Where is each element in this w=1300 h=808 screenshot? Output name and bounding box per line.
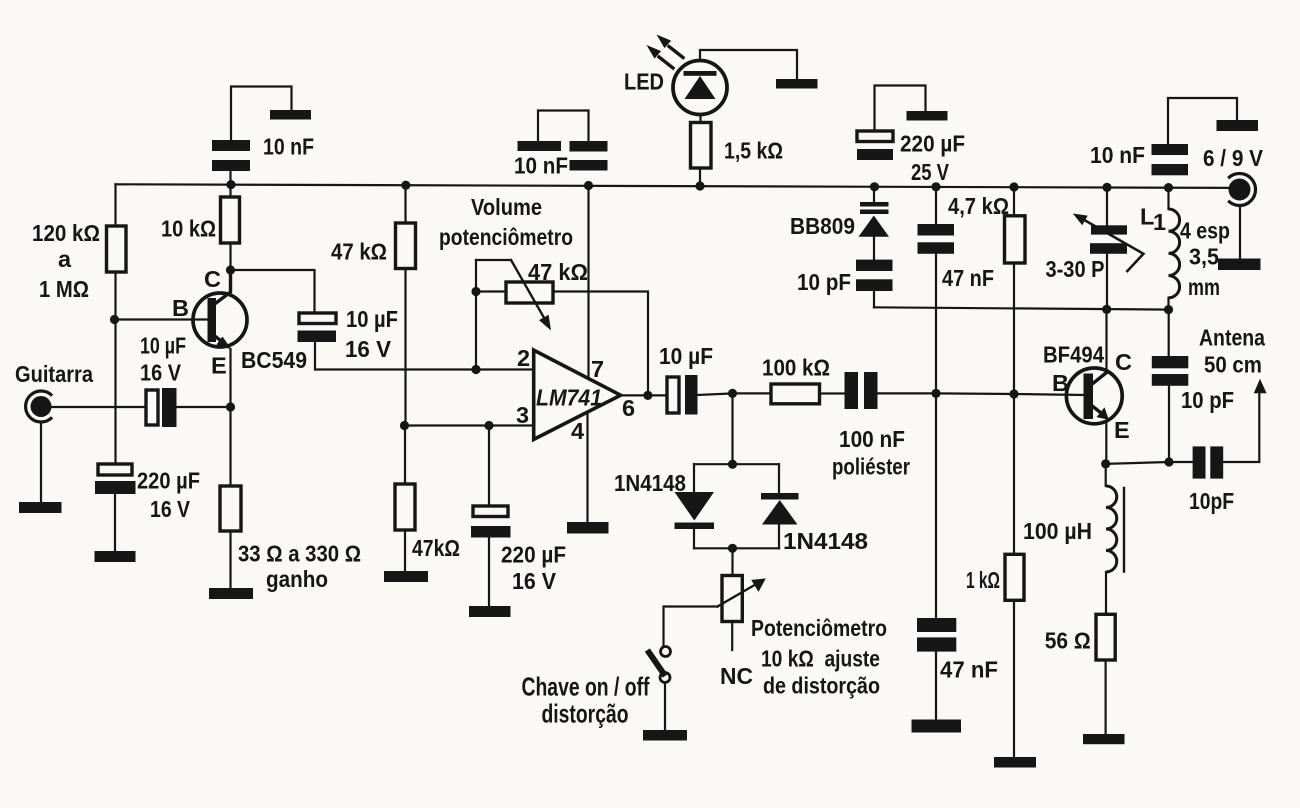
svg-text:47kΩ: 47kΩ [412, 535, 460, 561]
node clipper junction top [728, 460, 737, 469]
wire C3 top to ground [231, 87, 292, 141]
node rail x588 [584, 181, 593, 190]
svg-text:16 V: 16 V [150, 496, 190, 522]
wire C7 to clipper node [698, 393, 733, 395]
svg-text:potenciômetro: potenciômetro [439, 224, 573, 250]
svg-text:B: B [1052, 370, 1069, 396]
wire R3 to ground [229, 531, 231, 588]
svg-text:de distorção: de distorção [763, 673, 880, 699]
svg-text:47 nF: 47 nF [940, 657, 998, 683]
svg-text:mm: mm [1188, 274, 1220, 300]
svg-text:10 kΩ: 10 kΩ [161, 216, 216, 242]
svg-text:10 pF: 10 pF [1181, 387, 1234, 413]
svg-text:10 µF: 10 µF [659, 343, 713, 369]
svg-text:47 nF: 47 nF [942, 265, 994, 291]
capacitor C11 47 nF [918, 224, 955, 236]
ground bar under R10 [994, 757, 1036, 768]
svg-text:10pF: 10pF [1189, 488, 1234, 514]
svg-text:B: B [172, 295, 189, 321]
ground bar under R5 [384, 571, 428, 582]
wire C12 top to ground [1168, 98, 1237, 144]
capacitor C3 10 nF (left) [212, 140, 250, 151]
svg-text:4,7 kΩ: 4,7 kΩ [948, 193, 1009, 219]
wire pin 3 [405, 424, 535, 426]
switch SW1 chave on/off [661, 647, 671, 657]
node rail x1014 [1009, 182, 1018, 191]
inductor L1 4 esp [1167, 188, 1169, 209]
wire collector to C4 [231, 270, 315, 313]
ground bar under jack [19, 502, 62, 513]
node output [643, 391, 652, 400]
node tank x1107 [1102, 305, 1111, 314]
svg-text:4 esp: 4 esp [1180, 218, 1230, 244]
svg-text:10 nF: 10 nF [514, 153, 568, 179]
wire emitter to R3 [229, 407, 231, 486]
wire 6/9V to ground [1239, 206, 1241, 259]
node rail x936 [931, 182, 940, 191]
svg-text:1: 1 [1153, 209, 1166, 235]
svg-text:220 µF: 220 µF [137, 468, 200, 494]
svg-text:distorção: distorção [542, 699, 629, 729]
capacitor C12 10 nF (right) [1152, 144, 1189, 155]
svg-text:ganho: ganho [266, 566, 328, 592]
svg-text:E: E [1114, 417, 1130, 443]
ground bar under R9 [1083, 734, 1125, 744]
svg-text:10 pF: 10 pF [797, 269, 851, 295]
ground bar C12 [1217, 120, 1259, 131]
node rail x875 [870, 182, 879, 191]
wire 120k bottom to C1 [114, 272, 116, 464]
svg-text:Chave on / off: Chave on / off [522, 672, 650, 702]
wire 1k from base line [1013, 394, 1015, 554]
wire C10 to tank line [873, 291, 875, 307]
svg-text:poliéster: poliéster [832, 454, 910, 480]
capacitor C13 10 pF vertical [1152, 356, 1189, 368]
wire clipper bottom horizontal [694, 547, 779, 549]
capacitor C10 10 pF [856, 260, 893, 271]
wire C8 to base BF494 [878, 393, 1084, 395]
node clipper junction bottom [728, 544, 737, 553]
wire pin 7 [587, 186, 589, 377]
svg-text:10 nF: 10 nF [1090, 142, 1145, 168]
wire pot left terminal [476, 290, 506, 292]
wire 47nF bottom from base line [935, 393, 937, 618]
svg-text:1 kΩ: 1 kΩ [966, 567, 1000, 593]
capacitor C8 100 nF poliester [845, 372, 859, 409]
capacitor C1 220uF 16V [98, 464, 132, 475]
LED arrow 1 [669, 47, 683, 58]
wire trimmer to tank line [1106, 254, 1108, 310]
node rail x231 [226, 180, 235, 189]
svg-text:E: E [211, 353, 227, 379]
svg-text:a: a [58, 246, 72, 272]
wire R4 to pin3 line [404, 269, 406, 426]
ground bar pin4 [567, 522, 609, 534]
svg-text:47 kΩ: 47 kΩ [528, 259, 588, 285]
capacitor C6 10 nF (middle) [570, 141, 608, 152]
svg-text:BF494: BF494 [1043, 342, 1104, 368]
ground bar C3 [270, 110, 311, 120]
svg-text:1 MΩ: 1 MΩ [39, 276, 89, 302]
svg-text:220 µF: 220 µF [501, 542, 566, 568]
svg-text:16 V: 16 V [512, 568, 556, 594]
ground bar C9 [907, 111, 948, 121]
wire diode D2 top stub [778, 464, 780, 493]
capacitor C14 10pF antenna [1193, 446, 1206, 478]
svg-text:33 Ω a 330 Ω: 33 Ω a 330 Ω [238, 541, 361, 567]
diode D2 1N4148 [761, 493, 799, 500]
svg-text:100 nF: 100 nF [839, 426, 905, 452]
capacitor C4 10uF 16V [299, 313, 336, 324]
svg-text:100 kΩ: 100 kΩ [762, 355, 830, 381]
wire 120k top connect [114, 184, 116, 226]
wire antenna line [1106, 462, 1193, 464]
wire jack ground [40, 422, 42, 502]
resistor R4 47 kOhm [396, 223, 416, 269]
svg-text:4: 4 [571, 418, 584, 444]
node pin2 x476 [471, 365, 480, 374]
svg-text:3: 3 [516, 402, 529, 428]
wire BF494 collector [1105, 310, 1107, 372]
node pin3 x489 [484, 421, 493, 430]
ground bar under C5 [469, 606, 511, 617]
resistor R7 1,5 kOhm [691, 123, 712, 169]
wire V+ rail [116, 184, 1233, 188]
svg-text:LM741: LM741 [536, 385, 602, 411]
node base BC549 [110, 315, 119, 324]
resistor R8 4,7 kOhm [1005, 216, 1026, 263]
node collector BC549 [226, 265, 235, 274]
svg-text:220 µF: 220 µF [900, 131, 965, 157]
node base line x1014 [1009, 389, 1018, 398]
wire C5 to ground [488, 538, 490, 607]
wire 4,7k from rail [1013, 187, 1015, 216]
wire base BC549 [116, 318, 208, 320]
ground bar LED [776, 79, 818, 89]
wire pot left vertical [475, 260, 477, 370]
resistor R9 56 Ohm [1096, 614, 1115, 660]
svg-text:10 µF: 10 µF [140, 333, 186, 359]
node clipper top [728, 389, 737, 398]
svg-text:NC: NC [720, 663, 753, 689]
resistor R2 10 kOhm [221, 197, 240, 243]
svg-text:3-30 P: 3-30 P [1046, 256, 1105, 282]
svg-text:100 µH: 100 µH [1023, 518, 1092, 544]
wire R2 to collector node [229, 243, 231, 270]
svg-text:10 nF: 10 nF [263, 134, 314, 160]
node rail x1168 [1164, 183, 1173, 192]
node emitter BC549 [226, 402, 235, 411]
wire pin 4 [586, 415, 588, 523]
op-amp U1 LM741 [534, 350, 621, 439]
ground bar 6/9V [1218, 259, 1261, 271]
svg-text:56 Ω: 56 Ω [1045, 628, 1091, 654]
svg-text:25 V: 25 V [911, 159, 949, 185]
trimmer CV1 3-30 pF [1091, 225, 1127, 234]
wire pot right terminal to output [553, 292, 648, 396]
wire C15 to ground [935, 652, 937, 720]
wire C9 to ground [875, 86, 926, 132]
svg-text:10 kΩ ajuste: 10 kΩ ajuste [761, 646, 880, 672]
capacitor C9 220uF 25V [857, 131, 893, 142]
svg-text:C: C [204, 266, 221, 292]
wire C4 to pin2 [315, 342, 534, 370]
wire C1 to ground [114, 494, 116, 551]
wire 47nF from rail [935, 187, 937, 224]
wire L2 to R9 [1105, 572, 1107, 614]
antenna arrow [1254, 379, 1267, 394]
wire tank to C13 [1168, 310, 1170, 356]
ground bar under C1 [95, 551, 136, 562]
svg-text:LED: LED [624, 69, 664, 95]
wire R5 down [404, 426, 406, 485]
wire 100k to C8 [820, 392, 845, 394]
svg-text:BB809: BB809 [790, 213, 855, 239]
node rail x1107 [1102, 183, 1111, 192]
wire 220uF C5 from pin3 [488, 426, 490, 507]
svg-text:Guitarra: Guitarra [15, 361, 94, 387]
svg-text:Antena: Antena [1199, 325, 1266, 351]
wire pot wiper top [476, 259, 511, 261]
wire C14 to antenna [1223, 393, 1259, 462]
potentiometer P2 10 kOhm distortion [722, 576, 742, 622]
wire switch to ground [664, 683, 666, 731]
svg-text:1,5 kΩ: 1,5 kΩ [724, 138, 783, 164]
wire R8 to base line [1013, 263, 1015, 394]
wire BB809 to C10 [873, 237, 875, 260]
resistor R3 33-330 Ohm ganho [220, 486, 241, 531]
svg-text:1N4148: 1N4148 [783, 528, 868, 554]
svg-text:2: 2 [517, 345, 530, 371]
wire LED column from rail [699, 168, 701, 186]
wire D2 bottom stub [778, 525, 780, 549]
svg-text:BC549: BC549 [241, 347, 307, 373]
node emitter BF494 [1101, 459, 1110, 468]
wire diode D1 top stub [693, 464, 695, 492]
ground bar under switch [643, 730, 687, 741]
node antenna x1169 [1164, 457, 1173, 466]
capacitor C15 47 nF bottom [917, 618, 956, 632]
capacitor C7 10uF output [667, 377, 679, 413]
capacitor C2 10uF 16V input [146, 390, 158, 425]
wire C13 to antenna line [1168, 386, 1170, 462]
wire C2 to emitter node [177, 406, 231, 408]
svg-text:Volume: Volume [471, 194, 542, 220]
wire clipper to P2 [731, 548, 733, 575]
varicap D4 BB809 [860, 202, 889, 207]
wire clipper vertical [731, 393, 733, 464]
wire P2 bottom NC [731, 622, 733, 650]
transistor Q2 BF494 [1066, 368, 1122, 424]
LED D3 [673, 61, 727, 115]
wire switch to wiper [664, 607, 718, 647]
svg-text:3,5: 3,5 [1189, 244, 1219, 270]
wire C11 to base line [935, 254, 937, 394]
wire clipper node to 100k [733, 392, 772, 394]
node base line x936 [931, 389, 940, 398]
wire D1 bottom stub [693, 529, 695, 548]
svg-text:47 kΩ: 47 kΩ [331, 239, 387, 265]
svg-text:50 cm: 50 cm [1204, 352, 1262, 378]
resistor R10 1 kOhm [1005, 554, 1024, 600]
svg-text:120 kΩ: 120 kΩ [32, 220, 100, 246]
wire clipper top horizontal [694, 463, 779, 465]
diode D1 1N4148 [675, 492, 715, 521]
svg-text:1N4148: 1N4148 [614, 470, 686, 496]
resistor R6 100 kOhm [771, 384, 820, 404]
svg-text:6 / 9 V: 6 / 9 V [1203, 145, 1263, 171]
node rail x406 [401, 181, 410, 190]
ground bar under C15 [912, 720, 962, 733]
transistor Q1 BC549 [193, 293, 247, 347]
wire LED top to ground [700, 50, 797, 79]
ground bar under R3 [209, 588, 253, 599]
svg-text:6: 6 [622, 395, 635, 421]
svg-text:7: 7 [591, 356, 604, 382]
wire trimmer from rail [1106, 187, 1108, 225]
svg-text:16 V: 16 V [345, 336, 391, 362]
wire C6 top to ground [538, 111, 589, 142]
svg-text:C: C [1115, 349, 1132, 375]
node pin3 x405 [400, 421, 409, 430]
wire C3 to rail to R2 [229, 171, 231, 197]
capacitor C5 220uF 16V [473, 506, 508, 517]
resistor R1 120 kOhm a 1 MOhm [107, 226, 127, 272]
LED arrow 2 [659, 57, 673, 68]
wire jack to C2 [52, 406, 146, 408]
inductor L2 100 uH [1106, 486, 1117, 572]
svg-text:10 µF: 10 µF [346, 306, 398, 332]
potentiometer P1 47 kOhm volume [506, 282, 553, 303]
wire emitter to L2 [1105, 464, 1107, 486]
wire R7 to LED [699, 115, 701, 123]
wire R10 to ground [1013, 600, 1015, 757]
wire BB809 from rail [873, 187, 875, 202]
wire output pin6 [621, 394, 667, 396]
node tank x1168 [1164, 305, 1173, 314]
svg-text:16 V: 16 V [140, 360, 181, 386]
resistor R5 47kOhm [395, 484, 415, 530]
wire R9 to ground [1104, 660, 1106, 734]
node pot left [471, 287, 480, 296]
ground bar C6 [518, 141, 562, 151]
svg-text:Potenciômetro: Potenciômetro [751, 615, 887, 641]
node rail x700 [695, 181, 704, 190]
wire 47k column from rail [404, 185, 406, 223]
wire R5 to ground [404, 530, 406, 571]
wire tank line [874, 307, 1169, 309]
